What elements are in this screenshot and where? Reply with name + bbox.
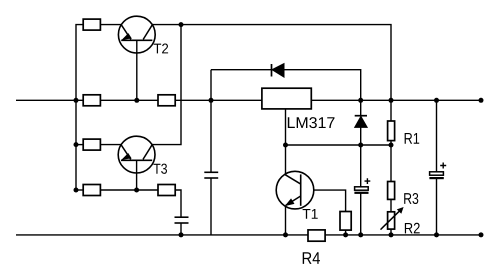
wire T2 base to input rail <box>136 40 138 100</box>
node bottom rail cap junction <box>434 232 439 237</box>
transistor T3 <box>118 136 155 173</box>
wire x=211 column upper <box>210 70 212 173</box>
wire row3 middle segment <box>100 189 158 191</box>
node bottom rail x=360.7 junction <box>358 232 363 237</box>
op-amp U1 LM317 box <box>262 88 311 109</box>
wire T1 collector lead <box>285 145 287 175</box>
wire resistor R5 to bottom rail <box>345 230 347 235</box>
wire T2 collector to right column <box>152 25 391 101</box>
wire output rail to R1 <box>390 100 392 121</box>
transistor T2 <box>118 16 155 53</box>
node output rail x=391 junction <box>389 98 394 103</box>
wire output rail segment <box>311 99 481 101</box>
wire LM317 adj pin lead <box>285 109 287 145</box>
wire output rail to diode D2 <box>360 100 362 115</box>
node bottom rail T1 emitter junction <box>283 232 288 237</box>
resistor R4 <box>308 230 325 241</box>
resistor R2 wiper arrow <box>381 207 404 230</box>
node output terminal top <box>479 98 484 103</box>
wire diode D1 top link <box>211 70 361 101</box>
node input rail x=211 junction <box>209 98 214 103</box>
capacitor C4 electrolytic output (x=436.5) <box>429 163 446 179</box>
resistor row3 left <box>83 185 100 196</box>
wire row2 resistor to T3 emitter <box>100 144 121 146</box>
resistor R3 <box>388 182 395 200</box>
capacitor C1 (x=211) <box>204 172 218 178</box>
node bottom rail x=345.6 junction <box>343 232 348 237</box>
diode D2 <box>355 116 368 128</box>
wire capacitor C3 to bottom rail <box>360 193 362 235</box>
wire R3 to R2 <box>390 199 392 211</box>
node T2 base rail junction <box>134 98 139 103</box>
node bus-row3 junction <box>74 188 79 193</box>
capacitor C2 (x=181) <box>175 217 189 223</box>
node output terminal bottom <box>479 232 484 237</box>
wire input rail left segment <box>16 99 262 101</box>
node bus-row2 junction <box>74 142 79 147</box>
wire row3 right segment down to capacitor <box>175 190 181 217</box>
label R4 <box>303 252 320 264</box>
node bottom rail x=181 junction <box>179 232 184 237</box>
label T2 <box>154 44 168 54</box>
transistor T1 <box>276 171 314 209</box>
wire left vertical bus x=76 <box>76 25 83 190</box>
wire row3 from bus to resistor <box>76 189 83 191</box>
wire R1 to R3 <box>390 141 392 182</box>
node top wire x=181 junction <box>179 22 184 27</box>
label R1 <box>405 133 420 144</box>
resistor R5 (T1 base) <box>340 212 351 231</box>
node bus-rail1 junction <box>74 98 79 103</box>
diode D1 <box>272 64 285 78</box>
node adj x=360.7 junction <box>358 143 363 148</box>
label LM317 <box>288 117 335 128</box>
label R3 <box>404 193 418 204</box>
wire T1 base to resistor R5 <box>314 190 346 211</box>
resistor row3 right <box>158 185 175 196</box>
wire output capacitor column lower <box>436 178 438 235</box>
node bottom rail x=391 junction <box>389 232 394 237</box>
wire T1 emitter to bottom rail <box>285 206 287 235</box>
wire T3 collector up to top wire <box>152 25 181 145</box>
wire diode D2 to adj node <box>360 127 362 145</box>
wire output capacitor column upper <box>436 100 438 172</box>
node output rail cap junction <box>434 98 439 103</box>
resistor R2 (variable) <box>388 212 395 229</box>
node T3 base row3 junction <box>134 188 139 193</box>
wire top row emitter lead to T2 <box>100 24 121 26</box>
wire bottom rail left segment <box>16 234 308 236</box>
wire capacitor C2 to bottom rail <box>180 223 182 235</box>
node adj x=285.5 junction <box>283 143 288 148</box>
node adj x=391 junction <box>389 143 394 148</box>
resistor input rail first <box>83 95 100 106</box>
wire x=211 column lower <box>210 178 212 235</box>
wire adj node down to capacitor C3 <box>360 145 362 187</box>
resistor top-left (T2 emitter) <box>83 19 100 30</box>
resistor input rail second <box>158 95 175 106</box>
label R2 <box>405 223 420 234</box>
wire R2 to bottom rail <box>390 229 392 235</box>
resistor R1 <box>388 121 395 141</box>
node output rail x=360.7 junction <box>358 98 363 103</box>
label T1 <box>303 209 318 219</box>
label T3 <box>153 164 167 174</box>
wire adj horizontal node <box>286 144 392 146</box>
wire bottom rail right segment <box>325 234 481 236</box>
wire T3 base down to row3 <box>136 160 138 190</box>
capacitor C3 electrolytic (x=361) <box>354 178 370 193</box>
resistor row2 (T3 emitter) <box>83 139 100 150</box>
wire row2 from bus to resistor <box>76 144 83 146</box>
